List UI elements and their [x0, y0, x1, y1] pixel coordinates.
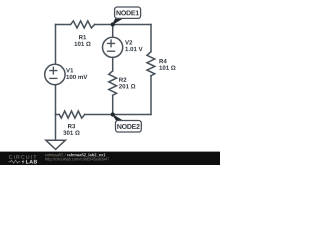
watermark logo LAB [26, 160, 37, 164]
resistor R2 [109, 71, 117, 95]
label R1 value [75, 42, 91, 46]
wire right vertical below R4 [150, 76, 152, 115]
label R3 value [63, 131, 79, 135]
watermark line 1a [45, 153, 65, 156]
node junction dot NODE2 [111, 112, 115, 116]
label R1 [79, 35, 86, 39]
resistor R4 [147, 52, 155, 76]
NODE1 label text [117, 10, 139, 15]
voltage source V1 circle [45, 64, 65, 84]
watermark line 1b [67, 153, 105, 156]
NODE1 flag pointer [111, 18, 123, 25]
resistor R1 [71, 21, 95, 28]
wire V1 bottom to bottom-left corner [55, 85, 57, 115]
label R2 value [119, 84, 135, 88]
voltage source V2 circle [103, 37, 123, 57]
label R4 [159, 59, 166, 63]
wire top-left vertical [55, 25, 57, 65]
resistor R3 [59, 111, 84, 118]
V2 plus sign [108, 40, 115, 47]
wire V2 bottom to R2 [112, 57, 114, 71]
watermark logo zigzag [9, 160, 21, 163]
node junction dot NODE1 [111, 22, 115, 26]
wire right vertical to R4 [150, 25, 152, 52]
watermark logo bolt [22, 160, 25, 165]
watermark logo CIRCUIT [9, 155, 37, 159]
label V1 [66, 68, 73, 72]
label R4 value [159, 66, 175, 70]
V1 minus sign [50, 77, 57, 79]
wire bottom horizontal left of R3 [56, 114, 60, 116]
wire ground stem [55, 115, 57, 141]
wire top horizontal right of R1 [95, 24, 151, 26]
NODE1 label box [115, 7, 141, 18]
wire top horizontal left of R1 [56, 24, 71, 26]
label R3 [68, 124, 75, 128]
watermark bar [0, 152, 220, 165]
watermark line 2 [45, 158, 109, 162]
V2 minus sign [108, 50, 115, 52]
wire bottom horizontal right of R3 [85, 114, 151, 116]
ground symbol [46, 140, 66, 149]
NODE2 label text [117, 124, 139, 129]
wire from NODE1 junction down to V2 [112, 25, 114, 38]
label V2 value [125, 47, 142, 51]
label V2 [125, 40, 132, 44]
NODE2 label box [116, 121, 142, 133]
wire R2 bottom to NODE2 junction [112, 95, 114, 114]
label V1 value [66, 75, 87, 79]
V1 plus sign [50, 67, 57, 74]
label R2 [119, 78, 126, 82]
NODE2 flag pointer [111, 113, 123, 120]
